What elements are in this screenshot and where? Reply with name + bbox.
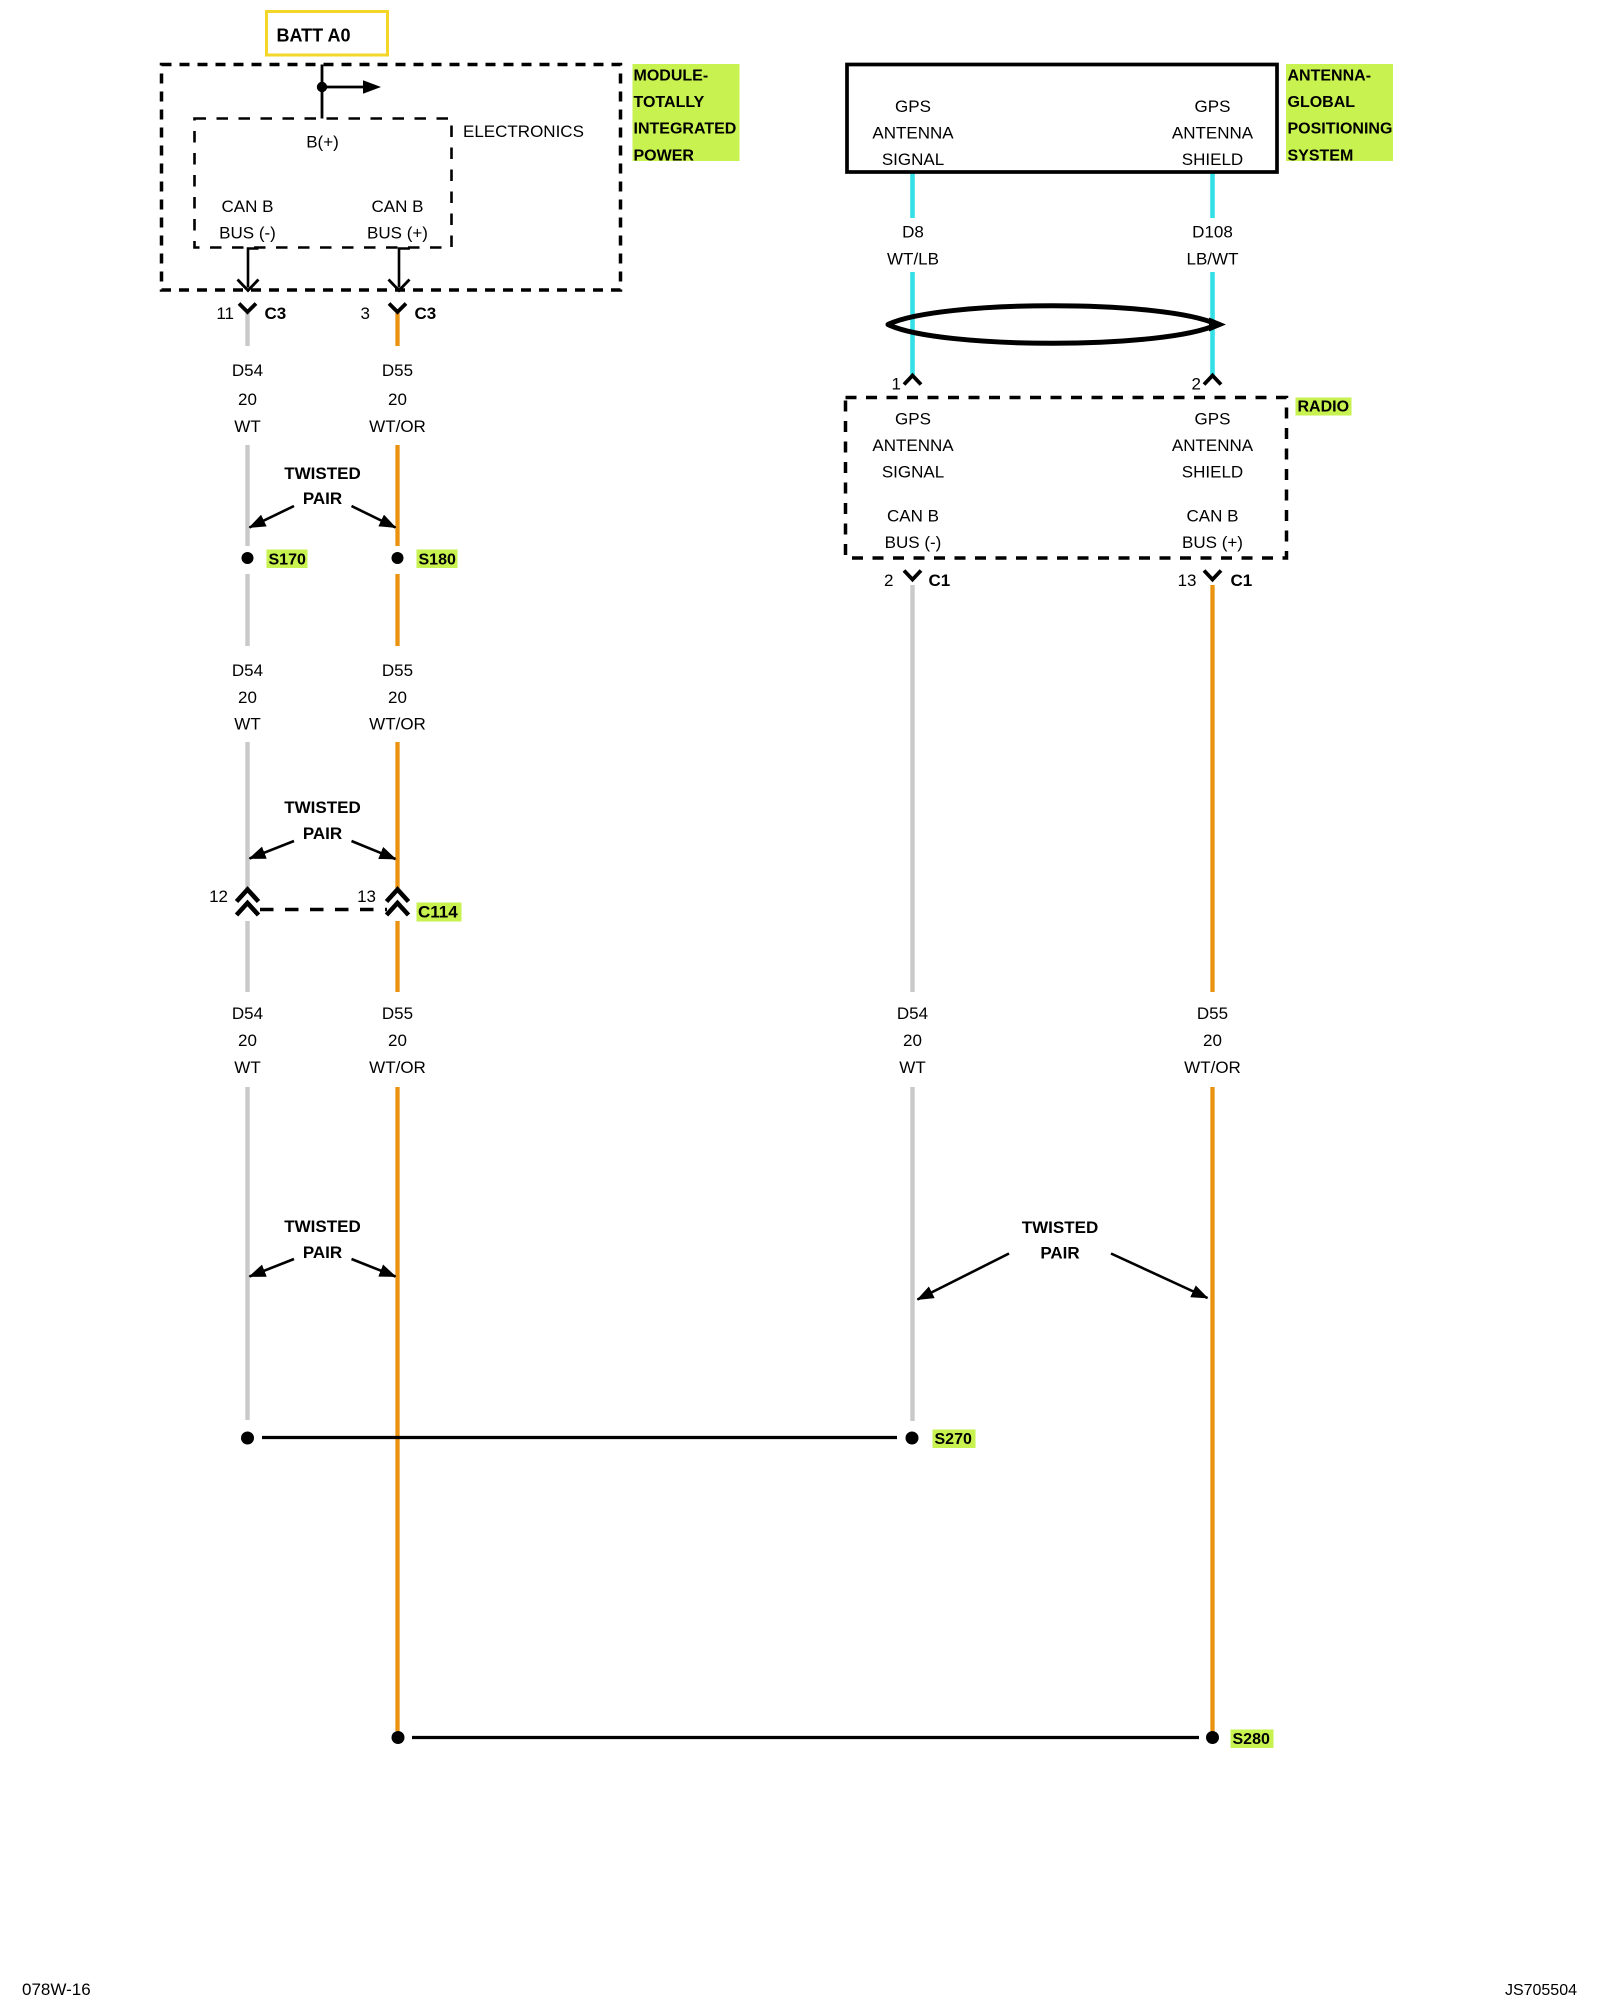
svg-text:S170: S170 [269, 552, 306, 569]
svg-text:20: 20 [238, 688, 257, 707]
svg-text:3: 3 [361, 304, 370, 323]
svg-text:WT: WT [234, 1058, 260, 1077]
svg-text:BUS (+): BUS (+) [367, 224, 428, 243]
svg-text:078W-16: 078W-16 [22, 1980, 91, 1999]
svg-text:20: 20 [388, 688, 407, 707]
svg-text:ANTENNA: ANTENNA [872, 124, 954, 143]
svg-text:ELECTRONICS: ELECTRONICS [463, 122, 584, 141]
svg-text:20: 20 [238, 390, 257, 409]
svg-text:TWISTED: TWISTED [284, 1217, 361, 1236]
svg-text:WT: WT [899, 1058, 925, 1077]
svg-text:11: 11 [216, 304, 234, 323]
svg-text:BUS (-): BUS (-) [885, 533, 942, 552]
svg-text:B(+): B(+) [306, 133, 339, 152]
svg-text:D54: D54 [897, 1004, 928, 1023]
svg-text:13: 13 [357, 887, 376, 906]
svg-text:PAIR: PAIR [303, 489, 342, 508]
svg-text:WT: WT [234, 715, 260, 734]
svg-text:GPS: GPS [1195, 97, 1231, 116]
svg-text:ANTENNA: ANTENNA [1172, 436, 1254, 455]
svg-text:CAN B: CAN B [372, 197, 424, 216]
svg-text:POWER: POWER [634, 147, 695, 164]
svg-text:BUS (+): BUS (+) [1182, 533, 1243, 552]
svg-text:20: 20 [1203, 1031, 1222, 1050]
svg-text:SIGNAL: SIGNAL [882, 150, 944, 169]
svg-text:WT: WT [234, 417, 260, 436]
svg-text:CAN B: CAN B [222, 197, 274, 216]
svg-text:S280: S280 [1233, 1731, 1270, 1748]
svg-text:JS705504: JS705504 [1505, 1982, 1577, 1999]
svg-text:BATT A0: BATT A0 [277, 26, 351, 46]
svg-text:GLOBAL: GLOBAL [1288, 94, 1356, 111]
svg-text:2: 2 [1192, 375, 1201, 394]
svg-text:CAN B: CAN B [1187, 507, 1239, 526]
svg-text:INTEGRATED: INTEGRATED [634, 121, 737, 138]
svg-text:20: 20 [388, 390, 407, 409]
svg-text:ANTENNA: ANTENNA [872, 436, 954, 455]
svg-text:S270: S270 [935, 1431, 972, 1448]
svg-text:1: 1 [892, 375, 901, 394]
svg-text:PAIR: PAIR [303, 824, 342, 843]
svg-text:D54: D54 [232, 361, 263, 380]
svg-text:20: 20 [388, 1031, 407, 1050]
svg-text:2: 2 [884, 571, 893, 590]
svg-text:C3: C3 [415, 304, 437, 323]
svg-text:SYSTEM: SYSTEM [1288, 147, 1354, 164]
svg-text:D54: D54 [232, 661, 263, 680]
svg-text:S180: S180 [419, 552, 456, 569]
svg-text:WT/LB: WT/LB [887, 250, 939, 269]
svg-text:GPS: GPS [895, 97, 931, 116]
svg-text:20: 20 [238, 1031, 257, 1050]
svg-text:D55: D55 [382, 1004, 413, 1023]
svg-text:PAIR: PAIR [1040, 1244, 1079, 1263]
svg-text:POSITIONING: POSITIONING [1288, 121, 1393, 138]
svg-text:GPS: GPS [1195, 410, 1231, 429]
svg-text:20: 20 [903, 1031, 922, 1050]
svg-text:WT/OR: WT/OR [1184, 1058, 1241, 1077]
svg-text:C3: C3 [265, 304, 287, 323]
svg-text:LB/WT: LB/WT [1187, 250, 1239, 269]
svg-text:WT/OR: WT/OR [369, 417, 426, 436]
svg-text:C1: C1 [1231, 571, 1253, 590]
svg-text:CAN B: CAN B [887, 507, 939, 526]
svg-text:GPS: GPS [895, 410, 931, 429]
svg-text:C1: C1 [929, 571, 951, 590]
svg-text:D55: D55 [382, 361, 413, 380]
svg-text:TWISTED: TWISTED [1022, 1218, 1099, 1237]
svg-text:ANTENNA: ANTENNA [1172, 124, 1254, 143]
svg-text:D8: D8 [902, 223, 924, 242]
svg-text:12: 12 [209, 887, 228, 906]
svg-text:SHIELD: SHIELD [1182, 150, 1243, 169]
svg-text:D54: D54 [232, 1004, 263, 1023]
svg-text:D108: D108 [1192, 223, 1233, 242]
svg-text:13: 13 [1178, 571, 1197, 590]
svg-text:WT/OR: WT/OR [369, 715, 426, 734]
svg-text:ANTENNA-: ANTENNA- [1288, 67, 1372, 84]
svg-text:PAIR: PAIR [303, 1243, 342, 1262]
svg-text:C114: C114 [418, 903, 458, 922]
svg-text:SHIELD: SHIELD [1182, 463, 1243, 482]
svg-text:WT/OR: WT/OR [369, 1058, 426, 1077]
svg-text:MODULE-: MODULE- [634, 67, 709, 84]
svg-text:TWISTED: TWISTED [284, 798, 361, 817]
svg-text:D55: D55 [382, 661, 413, 680]
svg-text:TWISTED: TWISTED [284, 464, 361, 483]
svg-text:D55: D55 [1197, 1004, 1228, 1023]
svg-text:SIGNAL: SIGNAL [882, 463, 944, 482]
svg-text:RADIO: RADIO [1298, 399, 1350, 416]
svg-text:TOTALLY: TOTALLY [634, 94, 705, 111]
svg-text:BUS (-): BUS (-) [219, 224, 276, 243]
